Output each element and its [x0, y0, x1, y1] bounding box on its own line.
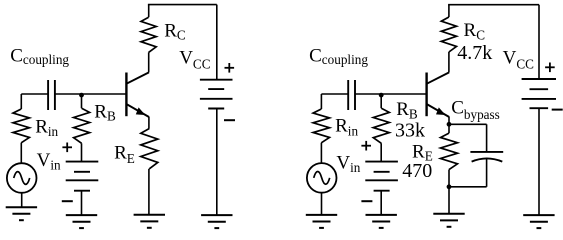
resistor R_C (left) [141, 5, 156, 73]
svg-text:4.7k: 4.7k [457, 42, 492, 64]
node: emitter top dot (right) [447, 122, 452, 127]
svg-text:RB: RB [396, 99, 418, 121]
svg-text:RB: RB [94, 101, 116, 123]
minus label (left bias battery) [62, 200, 73, 202]
svg-text:RC: RC [164, 21, 186, 43]
resistor R_E (right) [441, 117, 458, 214]
node: base junction dot (left) [79, 93, 84, 98]
resistor R_B (right) [373, 94, 389, 162]
wire: V_CC battery to ground (right) [538, 108, 540, 215]
Q2 NPN transistor [427, 72, 450, 117]
wire: input to coupling cap (left circuit) [21, 93, 48, 95]
node: emitter bottom dot (right) [447, 184, 452, 189]
svg-text:Vin: Vin [37, 150, 61, 172]
node: base junction dot (right) [379, 93, 384, 98]
svg-text:RC: RC [464, 20, 486, 42]
svg-text:VCC: VCC [503, 48, 535, 72]
svg-text:VCC: VCC [179, 48, 211, 72]
svg-text:RE: RE [114, 143, 135, 166]
minus label (right bias battery) [361, 200, 372, 202]
resistor R_C (right) [441, 5, 456, 73]
wire: input to coupling cap (right circuit) [321, 93, 348, 95]
battery V_CC (left) [200, 80, 233, 109]
svg-text:Vin: Vin [336, 153, 360, 175]
wire: rail down to V_CC battery (left) [216, 5, 218, 80]
svg-text:Cbypass: Cbypass [451, 97, 500, 121]
svg-text:33k: 33k [395, 119, 425, 141]
wire: V_CC battery to ground (left) [216, 109, 218, 216]
minus label (left V_CC) [224, 119, 235, 121]
wire: cap to base (left) [55, 93, 126, 95]
wire: source to ground (right) [321, 193, 323, 215]
V_in AC source [7, 163, 37, 193]
plus label (right V_CC) [545, 63, 555, 73]
ground (left emitter) [134, 215, 165, 228]
ground (right emitter) [433, 214, 464, 227]
svg-text:470: 470 [402, 160, 432, 182]
Q1 NPN transistor [126, 72, 149, 117]
ground (left V_CC) [201, 215, 232, 228]
wire: rail down to V_CC battery (right) [538, 5, 540, 79]
wire: cap to base (right) [355, 93, 427, 95]
battery V_CC (right) [522, 79, 556, 108]
battery V_bias (left) [66, 162, 99, 191]
ground (left input) [6, 207, 37, 220]
svg-text:Rin: Rin [335, 116, 358, 139]
plus label (right bias battery) [361, 141, 371, 151]
svg-text:Ccoupling: Ccoupling [309, 46, 368, 68]
plus label (left bias battery) [62, 143, 72, 153]
plus label (left V_CC) [225, 63, 235, 73]
resistor R_in (left) [13, 94, 29, 163]
resistor R_B (left) [74, 94, 90, 162]
capacitor C_coupling (left) [48, 80, 55, 110]
svg-text:Ccoupling: Ccoupling [10, 46, 69, 68]
svg-text:Rin: Rin [35, 116, 58, 139]
wire: bias battery to ground (right) [380, 191, 382, 215]
ground (right bias) [366, 215, 397, 228]
capacitor C_coupling (right) [348, 80, 355, 110]
battery V_bias (right) [365, 162, 398, 191]
wire: V_CC top rail (right) [448, 4, 539, 6]
V_in (right) AC source [307, 163, 337, 193]
wire: bias battery to ground (left) [81, 191, 83, 215]
ground (right input) [306, 215, 337, 228]
resistor R_in (right) [313, 94, 329, 163]
resistor R_E (left) [141, 117, 158, 215]
minus label (right V_CC) [552, 109, 563, 111]
wire: source to ground (left) [21, 193, 23, 207]
wire: V_CC top rail (left) [148, 4, 217, 6]
capacitor C_bypass [449, 124, 503, 187]
ground (left bias) [66, 215, 97, 228]
ground (right V_CC) [523, 215, 554, 228]
